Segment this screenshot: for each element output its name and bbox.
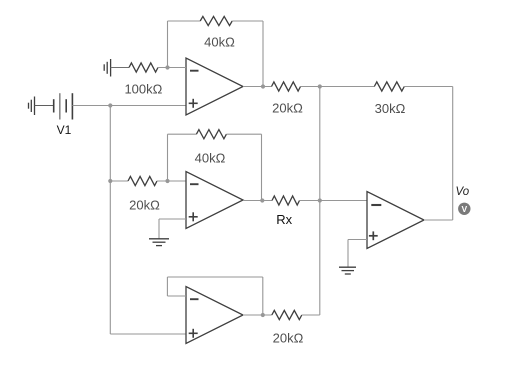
wire U4 + down to ground — [347, 240, 349, 268]
battery V1 — [54, 93, 73, 119]
wire node C up to feedback rail — [167, 21, 169, 68]
svg-text:Rx: Rx — [276, 212, 292, 227]
svg-text:40kΩ: 40kΩ — [195, 150, 226, 165]
wire 100k to node C (U1 - input) — [158, 67, 186, 69]
resistor Rx — [272, 196, 299, 205]
resistor 40kΩ (U2 feedback) — [196, 130, 226, 139]
svg-text:100kΩ: 100kΩ — [124, 82, 162, 97]
node I junction (U3 output) — [261, 313, 265, 317]
wire feedback down to U1 output — [262, 21, 264, 87]
op-amp U4 — [367, 192, 424, 249]
wire U2 output — [243, 200, 272, 202]
wire to op-amp U3 + input — [110, 333, 186, 335]
svg-text:40kΩ: 40kΩ — [204, 35, 235, 50]
node D junction (U1 output) — [261, 84, 265, 88]
wire U2 feedback rail left segment — [168, 133, 197, 135]
wire U2 + down to ground — [158, 219, 160, 239]
wire U1 - input stub — [168, 67, 187, 69]
wire summing bus vertical — [319, 87, 321, 316]
resistor 20kΩ (U2 input) — [128, 176, 157, 185]
ground (at U4 + input) — [339, 267, 356, 274]
svg-text:Vo: Vo — [455, 186, 469, 198]
svg-text:20kΩ: 20kΩ — [273, 331, 304, 346]
resistor 40kΩ (U1 feedback) — [200, 16, 232, 25]
node B junction (left bus tap to 20k) — [108, 179, 112, 183]
wire feedback rail left segment — [168, 20, 201, 22]
wire U3 feedback down to output — [262, 277, 264, 315]
svg-text:V1: V1 — [57, 123, 72, 137]
wire U1 output — [243, 86, 272, 88]
node A junction — [108, 103, 112, 107]
wire U4 output — [424, 219, 453, 221]
wire 20k to bottom corner of bus — [302, 314, 320, 316]
wire 20k to node F (U2 - input) — [157, 180, 186, 182]
op-amp U3 — [186, 287, 243, 344]
resistor 100kΩ — [129, 63, 158, 72]
wire node B to 20k (U2 input) — [110, 180, 128, 182]
resistor 30kΩ (U4 feedback) — [374, 82, 404, 91]
wire U2 feedback rail right segment — [226, 133, 261, 135]
wire feedback rail right segment — [232, 20, 263, 22]
svg-text:20kΩ: 20kΩ — [129, 197, 160, 212]
node H junction (summing bus mid) — [318, 198, 322, 202]
node G junction (U2 output) — [260, 198, 264, 202]
wire battery to node A — [72, 105, 110, 107]
resistor 20kΩ (U3 output) — [272, 310, 302, 319]
ground (sideways, at battery negative) — [29, 97, 35, 116]
resistor 20kΩ (U1 output) — [272, 82, 301, 91]
wire node H to op-amp U4 - input — [320, 200, 367, 202]
svg-text:V: V — [461, 204, 467, 214]
ground (at U2 + input) — [149, 239, 169, 246]
wire ground to battery V1 — [35, 105, 54, 107]
wire Rx to node H — [300, 200, 320, 202]
wire U3 feedback left vertical — [166, 277, 168, 296]
wire U2 + input — [159, 218, 186, 220]
svg-text:20kΩ: 20kΩ — [272, 101, 303, 116]
wire U2 feedback down to output — [261, 134, 263, 200]
svg-text:30kΩ: 30kΩ — [375, 101, 406, 116]
wire ground to resistor 100k — [111, 67, 129, 69]
ground (sideways, at 100k input) — [104, 59, 110, 77]
voltmeter probe V — [458, 203, 470, 215]
node C junction — [165, 65, 169, 69]
wire node F up to U2 feedback rail — [167, 134, 169, 181]
wire U4 + input — [348, 239, 367, 241]
wire U3 output — [243, 314, 272, 316]
node E junction (summing bus top) — [318, 84, 322, 88]
wire U3 - input stub — [167, 295, 186, 297]
op-amp U2 — [186, 172, 243, 229]
wire 30k to right corner — [404, 86, 452, 88]
wire node E to 30k — [320, 86, 375, 88]
wire 20k to node E — [301, 86, 320, 88]
wire node A to op-amp U1 + input — [110, 105, 186, 107]
wire right vertical down to U4 output — [452, 87, 454, 221]
op-amp U1 — [186, 58, 243, 115]
wire U3 feedback top rail — [167, 276, 262, 278]
node F junction — [165, 179, 169, 183]
wire left bus (node A down to U3 + input) — [109, 106, 111, 335]
